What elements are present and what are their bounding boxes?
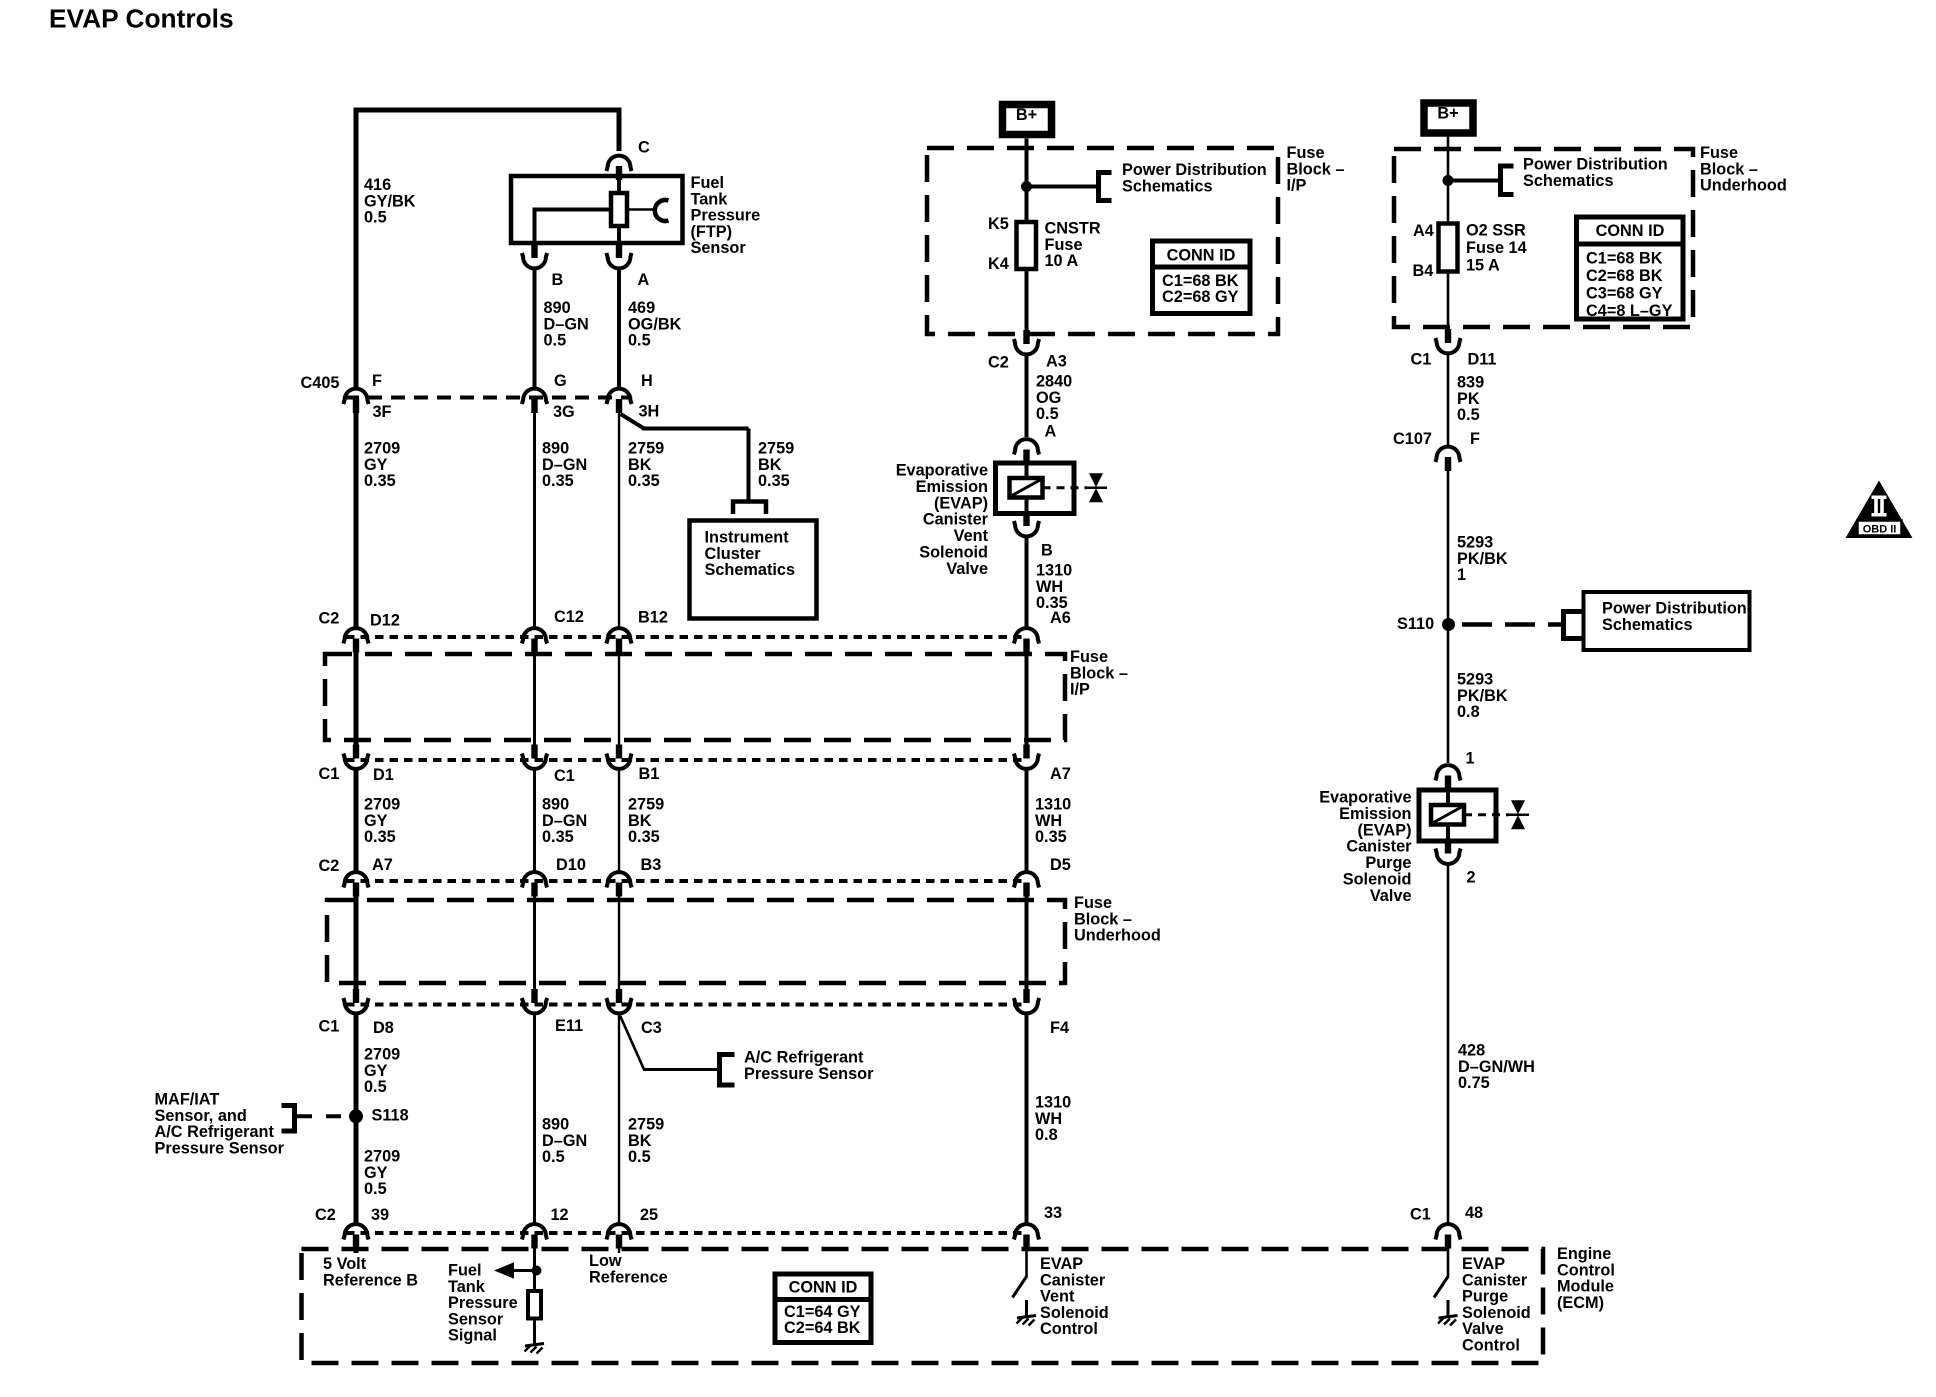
svg-text:B: B [552, 271, 564, 289]
svg-text:C405: C405 [301, 374, 340, 392]
label 1310 WH 0.8 [1035, 1094, 1071, 1145]
svg-text:C2: C2 [319, 610, 340, 628]
pin label D5 [1050, 856, 1071, 874]
svg-text:Power Distribution: Power Distribution [1602, 600, 1747, 618]
wire junction to O2 SSR fuse [1447, 181, 1450, 226]
svg-text:Schematics: Schematics [1523, 172, 1614, 190]
svg-text:0.75: 0.75 [1458, 1074, 1490, 1092]
svg-text:0.35: 0.35 [542, 472, 574, 490]
connector ECM pin 48 [1435, 1224, 1460, 1248]
svg-text:0.5: 0.5 [628, 332, 651, 350]
connector C1 pin D8 [343, 989, 368, 1013]
svg-text:CONN ID: CONN ID [1596, 222, 1665, 240]
connector pin A7 (col4) [1014, 745, 1039, 769]
label Fuse Block - I/P (left box) [1070, 648, 1128, 699]
svg-text:D12: D12 [370, 612, 400, 630]
label 839 PK 0.5 [1457, 374, 1484, 425]
label 2759 BK 0.5 (lower) [628, 1116, 664, 1167]
label C1 (row D8) [319, 1018, 340, 1036]
svg-text:EVAP: EVAP [1040, 1255, 1083, 1273]
svg-text:C3: C3 [641, 1019, 662, 1037]
svg-text:BK: BK [628, 456, 652, 474]
connector row C1/D8 dotted line [346, 1003, 1027, 1007]
svg-text:D11: D11 [1468, 351, 1497, 369]
svg-text:C: C [638, 139, 650, 157]
wire ECM pin 12 to internal resistor [533, 1247, 536, 1292]
svg-text:CONN ID: CONN ID [1167, 247, 1236, 265]
svg-text:B1: B1 [639, 765, 660, 783]
svg-text:H: H [641, 372, 653, 390]
svg-text:Solenoid: Solenoid [919, 544, 988, 562]
svg-text:C12: C12 [554, 608, 584, 626]
wire top loop (416 GY/BK from FTP sensor pin C) [354, 108, 622, 388]
svg-text:Vent: Vent [954, 527, 989, 545]
svg-text:15 A: 15 A [1466, 257, 1500, 275]
label Evaporative Emission (EVAP) Canister Purge Solenoid Valve [1319, 789, 1412, 905]
svg-text:Canister: Canister [1346, 838, 1412, 856]
splice S110 [1442, 618, 1455, 631]
label 5 Volt Reference B [323, 1255, 418, 1289]
wire stub from FTP box to pin B [533, 243, 537, 245]
svg-text:C2=68 BK: C2=68 BK [1586, 267, 1663, 285]
wire 2759 BK 0.35 (B1 to B3) [618, 770, 620, 871]
svg-text:CONN ID: CONN ID [789, 1279, 858, 1297]
power distribution schematics box (S110) [1584, 592, 1750, 650]
svg-text:Control: Control [1040, 1320, 1098, 1338]
connector pin D10 [522, 872, 547, 896]
svg-text:33: 33 [1044, 1204, 1062, 1222]
engine control module (ECM) dashed box [302, 1249, 1544, 1363]
label Fuel Tank Pressure (FTP) Sensor [691, 174, 761, 257]
splice S118 [349, 1109, 363, 1123]
label Power Distribution Schematics (middle) [1122, 161, 1267, 195]
svg-text:2759: 2759 [628, 440, 664, 458]
wire 890 D-GN 0.35 (C1 to D10) [533, 770, 536, 871]
dashed link MAF/IAT bracket to S118 [297, 1114, 350, 1118]
svg-text:BK: BK [758, 456, 782, 474]
svg-text:Fuse: Fuse [1700, 144, 1738, 162]
svg-text:S110: S110 [1397, 615, 1434, 633]
label C1 (ECM pin 48) [1410, 1206, 1431, 1224]
label S110 [1397, 615, 1434, 633]
wire 428 D-GN/WH 0.75 (pin 2 to ECM pin 48) [1447, 865, 1450, 1223]
pin label F (C107) [1470, 430, 1480, 448]
connector C405 pin F [343, 389, 368, 413]
svg-text:2759: 2759 [628, 1116, 664, 1134]
svg-text:Valve: Valve [946, 560, 988, 578]
connector pin C12 [522, 628, 547, 652]
svg-text:K5: K5 [988, 215, 1009, 233]
svg-text:Tank: Tank [448, 1278, 486, 1296]
pin label F4 [1050, 1019, 1069, 1037]
pin label D12 [370, 612, 400, 630]
svg-text:MAF/IAT: MAF/IAT [155, 1091, 220, 1109]
fuse CNSTR 10A element [1017, 222, 1037, 269]
wire 2709 GY 0.35 (3F to D12) [354, 411, 359, 628]
svg-text:OG: OG [1036, 389, 1061, 407]
svg-text:890: 890 [542, 440, 569, 458]
label C107 [1393, 430, 1432, 448]
pin label A7 (col4) [1050, 765, 1071, 783]
wire 2709 GY 0.5 (D8 to S118) [354, 1015, 359, 1117]
FTP sensor wiper wire [627, 208, 656, 210]
label EVAP Canister Purge Solenoid Valve Control [1462, 1255, 1531, 1355]
svg-text:A4: A4 [1413, 222, 1434, 240]
svg-text:Purge: Purge [1462, 1288, 1508, 1306]
svg-text:E11: E11 [555, 1017, 583, 1035]
wire 890 D-GN 0.5 (E11 to pin 12) [533, 1015, 536, 1224]
svg-text:Emission: Emission [916, 478, 988, 496]
svg-text:O2 SSR: O2 SSR [1466, 222, 1526, 240]
svg-text:0.35: 0.35 [542, 828, 574, 846]
svg-text:BK: BK [628, 1132, 652, 1150]
power distribution off-page bracket (middle) [1099, 170, 1112, 203]
svg-text:D1: D1 [373, 766, 394, 784]
connector ECM pin 39 [343, 1224, 368, 1248]
svg-text:Signal: Signal [448, 1327, 497, 1345]
label 1310 WH 0.35 (col4 mid) [1035, 796, 1071, 847]
wire B+ into fuse block I/P [1025, 139, 1029, 189]
label C2 (ECM row) [315, 1206, 336, 1224]
svg-text:Low: Low [589, 1252, 622, 1270]
svg-text:Solenoid: Solenoid [1343, 871, 1412, 889]
wire O2 SSR fuse to connector C1/D11 [1447, 272, 1450, 330]
wire 5293 PK/BK 1 (C107 to S110) [1447, 470, 1450, 624]
wire 1310 WH 0.35 (A7 to D5) [1025, 770, 1029, 871]
svg-text:890: 890 [542, 1116, 569, 1134]
svg-text:C1: C1 [554, 767, 575, 785]
label 2709 GY 0.5 (lower) [364, 1148, 400, 1199]
svg-text:Block –: Block – [1287, 160, 1345, 178]
svg-text:1310: 1310 [1035, 796, 1071, 814]
svg-text:Reference: Reference [589, 1268, 668, 1286]
label Fuse Block - Underhood (top) [1700, 144, 1787, 195]
connector pin E11 [522, 989, 547, 1013]
FTP sensor internal wire below element [617, 226, 621, 243]
svg-text:890: 890 [542, 796, 569, 814]
pin label A6 [1050, 609, 1071, 627]
wire ECM pin 25 stub [618, 1247, 620, 1253]
svg-text:K4: K4 [988, 255, 1009, 273]
wire 2709 GY 0.35 (D1 to A7) [354, 770, 359, 871]
wire col2 through underhood block [533, 896, 536, 990]
svg-text:Fuel: Fuel [448, 1262, 481, 1280]
svg-text:3G: 3G [553, 403, 575, 421]
FTP sensor internal wire to resistive element [617, 178, 621, 195]
label Fuse Block - Underhood (left box) [1074, 894, 1161, 945]
svg-text:0.35: 0.35 [1035, 828, 1067, 846]
svg-text:0.8: 0.8 [1035, 1126, 1058, 1144]
label 5293 PK/BK 0.8 [1457, 671, 1508, 722]
svg-text:2840: 2840 [1036, 373, 1072, 391]
ECM purge solenoid driver switch [1434, 1247, 1448, 1298]
svg-text:0.35: 0.35 [758, 472, 790, 490]
svg-text:EVAP: EVAP [1462, 1255, 1505, 1273]
label 1310 WH 0.35 (upper col4) [1036, 562, 1072, 613]
connector pin A of FTP sensor [606, 243, 631, 268]
EVAP canister purge solenoid valve [1419, 790, 1529, 841]
connector pin F4 [1014, 989, 1039, 1013]
power symbol B+ (middle) [1003, 105, 1052, 135]
pin label B (vent valve) [1041, 542, 1053, 560]
label K5 [988, 215, 1009, 233]
svg-text:CNSTR: CNSTR [1045, 220, 1101, 238]
svg-text:(ECM): (ECM) [1557, 1294, 1604, 1312]
pin label D10 [556, 856, 586, 874]
svg-text:428: 428 [1458, 1042, 1485, 1060]
wire junction to power distribution bracket (right) [1448, 179, 1499, 183]
pin label C12 [554, 608, 584, 626]
power symbol B+ (right) [1424, 103, 1473, 133]
svg-text:Fuse: Fuse [1045, 236, 1083, 254]
svg-text:WH: WH [1035, 812, 1062, 830]
label 416 GY/BK 0.5 [364, 176, 416, 227]
power distribution off-page bracket (right) [1501, 164, 1514, 198]
OBD II marker triangle [1846, 481, 1913, 539]
svg-text:Block –: Block – [1700, 160, 1758, 178]
svg-text:D–GN: D–GN [542, 812, 587, 830]
pin label C1 (col2) [554, 767, 575, 785]
wire 890 D-GN 0.35 (3G to C12) [533, 411, 536, 628]
svg-text:Underhood: Underhood [1074, 927, 1161, 945]
svg-text:OBD II: OBD II [1863, 524, 1897, 536]
svg-text:0.5: 0.5 [544, 332, 567, 350]
svg-text:Instrument: Instrument [705, 529, 790, 547]
pin label A7 (col1) [372, 856, 393, 874]
label EVAP Canister Vent Solenoid Control [1040, 1255, 1109, 1338]
svg-text:EVAP Controls: EVAP Controls [49, 4, 234, 34]
wire 2840 OG 0.5 (A3 to vent valve pin A) [1025, 356, 1029, 438]
wire junction to CNSTR fuse [1025, 187, 1029, 225]
wire 2759 BK 0.5 (C3 to pin 25) [618, 1015, 620, 1224]
pin label 3F [373, 403, 392, 421]
fuse block - underhood dashed box [327, 900, 1065, 983]
svg-text:B: B [1041, 542, 1053, 560]
wire 839 PK 0.5 (D11 to C107 F) [1447, 355, 1450, 446]
CONN ID table (fuse block I/P) [1153, 241, 1251, 314]
svg-text:10 A: 10 A [1045, 252, 1079, 270]
label C1 (row D1) [319, 765, 340, 783]
svg-text:C2=68 GY: C2=68 GY [1162, 288, 1239, 306]
svg-text:Control: Control [1462, 1337, 1520, 1355]
svg-text:Vent: Vent [1040, 1288, 1075, 1306]
svg-text:0.35: 0.35 [1036, 594, 1068, 612]
svg-text:0.5: 0.5 [1036, 405, 1059, 423]
svg-text:1: 1 [1457, 566, 1466, 584]
pin label B12 [638, 609, 668, 627]
svg-text:D5: D5 [1050, 856, 1071, 874]
pin label 12 [551, 1206, 569, 1224]
wire stub C into FTP box [617, 176, 622, 179]
svg-text:Reference B: Reference B [323, 1271, 418, 1289]
svg-text:2709: 2709 [364, 440, 400, 458]
svg-text:Solenoid: Solenoid [1462, 1304, 1531, 1322]
svg-text:1: 1 [1466, 750, 1475, 768]
connector C405 pin H [606, 389, 631, 413]
connector C2/A3 (middle) [1014, 330, 1039, 354]
svg-text:GY/BK: GY/BK [364, 192, 416, 210]
label 2759 BK 0.35 (second) [628, 796, 664, 847]
label 890 D-GN 0.5 [544, 299, 589, 350]
pin label A3 [1046, 353, 1067, 371]
label O2 SSR Fuse 14 15 A [1466, 222, 1527, 275]
label 2709 GY 0.35 [364, 440, 400, 491]
svg-text:F4: F4 [1050, 1019, 1069, 1037]
svg-text:0.5: 0.5 [364, 1180, 387, 1198]
svg-text:(EVAP): (EVAP) [934, 494, 988, 512]
power distribution off-page bracket (S110) [1564, 609, 1584, 641]
wire 2759 BK 0.35 branch to instrument cluster [621, 414, 749, 501]
label CNSTR Fuse 10 A [1045, 220, 1101, 271]
connector row C2/D12 dotted line [346, 635, 1027, 639]
svg-text:2759: 2759 [758, 440, 794, 458]
svg-text:C2=64 BK: C2=64 BK [784, 1319, 861, 1337]
svg-text:Pressure Sensor: Pressure Sensor [744, 1065, 874, 1083]
pin label F [372, 372, 382, 390]
svg-text:0.8: 0.8 [1457, 703, 1480, 721]
connector pin D5 [1014, 872, 1039, 896]
FTP sensor wiper crescent symbol [655, 200, 669, 221]
label Power Distribution Schematics (right) [1523, 156, 1668, 190]
label 428 D-GN/WH 0.75 [1458, 1042, 1535, 1093]
svg-text:0.5: 0.5 [364, 1078, 387, 1096]
label 890 D-GN 0.35 [542, 440, 587, 491]
junction node in fuse block underhood [1443, 175, 1454, 186]
label 469 OG/BK 0.5 [628, 299, 682, 350]
connector pin 2 below purge valve [1435, 840, 1460, 864]
pin label E11 [555, 1017, 583, 1035]
pin label C [638, 139, 650, 157]
svg-text:Pressure Sensor: Pressure Sensor [155, 1139, 285, 1157]
svg-text:Control: Control [1557, 1261, 1615, 1279]
svg-text:0.5: 0.5 [364, 209, 387, 227]
connector pin C at FTP sensor [606, 156, 631, 180]
svg-text:Canister: Canister [1040, 1271, 1106, 1289]
svg-text:Sensor: Sensor [448, 1310, 504, 1328]
instrument cluster connector symbol [733, 502, 766, 515]
wire B+ into fuse block underhood [1447, 137, 1450, 182]
svg-text:5293: 5293 [1457, 671, 1493, 689]
CONN ID table (fuse block underhood) [1577, 217, 1684, 320]
pin label 25 [640, 1206, 658, 1224]
svg-text:Block –: Block – [1070, 664, 1128, 682]
connector ECM pin 33 [1014, 1224, 1039, 1248]
svg-text:D–GN/WH: D–GN/WH [1458, 1058, 1535, 1076]
svg-text:B+: B+ [1016, 106, 1037, 124]
wire 890 D-GN 0.5 (pin B to C405 G) [533, 270, 537, 388]
ECM internal pull-up resistor [528, 1291, 541, 1319]
svg-text:I/P: I/P [1287, 177, 1307, 195]
label 2709 GY 0.5 (upper) [364, 1046, 400, 1097]
svg-text:F: F [1470, 430, 1480, 448]
svg-text:Sensor: Sensor [691, 239, 747, 257]
label 2709 GY 0.35 (second) [364, 796, 400, 847]
A/C refrigerant pressure sensor bracket [720, 1052, 735, 1088]
svg-text:0.35: 0.35 [628, 828, 660, 846]
pin label D8 [373, 1019, 394, 1037]
svg-text:B12: B12 [638, 609, 668, 627]
label C405 [301, 374, 340, 392]
fuse block - I/P dashed box (top middle) [927, 148, 1278, 334]
svg-text:416: 416 [364, 176, 391, 194]
svg-text:2709: 2709 [364, 1046, 400, 1064]
svg-text:469: 469 [628, 299, 655, 317]
label Engine Control Module (ECM) [1557, 1245, 1615, 1312]
label 2759 BK 0.35 (branch) [758, 440, 794, 491]
fuse block - underhood dashed box (top right) [1394, 149, 1693, 327]
svg-text:Canister: Canister [1462, 1271, 1528, 1289]
svg-text:Canister: Canister [923, 511, 989, 529]
fuse O2 SSR 15A element [1439, 224, 1458, 272]
svg-text:PK/BK: PK/BK [1457, 550, 1508, 568]
svg-text:Schematics: Schematics [1122, 177, 1213, 195]
svg-text:3H: 3H [639, 403, 660, 421]
pin label C3 [641, 1019, 662, 1037]
connector C107 pin F [1435, 447, 1460, 471]
svg-text:G: G [554, 372, 567, 390]
pin label 1 (purge valve) [1466, 750, 1475, 768]
connector pin B1 [606, 745, 631, 769]
svg-text:Cluster: Cluster [705, 545, 762, 563]
pin label B [552, 271, 564, 289]
pin label A [638, 271, 650, 289]
pin label 39 [371, 1206, 389, 1224]
svg-text:5293: 5293 [1457, 534, 1493, 552]
svg-text:Fuse: Fuse [1070, 648, 1108, 666]
instrument cluster schematics box [690, 521, 817, 619]
wire col1 through underhood block [354, 896, 359, 990]
connector pin C3 [606, 989, 631, 1013]
svg-text:C2: C2 [315, 1206, 336, 1224]
pin label 3H [639, 403, 660, 421]
connector pin B of FTP sensor [522, 244, 547, 268]
connector C1/D11 [1435, 329, 1460, 353]
label C2 (row A7) [319, 857, 340, 875]
svg-text:25: 25 [640, 1206, 658, 1224]
svg-text:I/P: I/P [1070, 681, 1090, 699]
svg-text:Solenoid: Solenoid [1040, 1304, 1109, 1322]
svg-text:A/C Refrigerant: A/C Refrigerant [155, 1123, 275, 1141]
fuel tank pressure (FTP) sensor box [511, 176, 683, 243]
wire 2709 GY 0.5 (S118 to pin 39) [354, 1116, 359, 1223]
svg-text:WH: WH [1035, 1110, 1062, 1128]
svg-text:Power Distribution: Power Distribution [1523, 156, 1668, 174]
svg-text:1310: 1310 [1035, 1094, 1071, 1112]
svg-text:Schematics: Schematics [705, 561, 796, 579]
svg-text:0.5: 0.5 [628, 1148, 651, 1166]
svg-text:Fuse 14: Fuse 14 [1466, 239, 1527, 257]
label C1 (D11 connector) [1411, 351, 1432, 369]
svg-text:2759: 2759 [628, 796, 664, 814]
svg-text:C107: C107 [1393, 430, 1432, 448]
EVAP canister vent solenoid valve [996, 463, 1108, 514]
svg-text:A3: A3 [1046, 353, 1067, 371]
pin label B3 [641, 856, 662, 874]
FTP sensor resistive element [611, 193, 627, 226]
svg-text:PK/BK: PK/BK [1457, 687, 1508, 705]
label 2840 OG 0.5 [1036, 373, 1072, 424]
wire branch to A/C refrigerant pressure sensor [620, 1016, 718, 1070]
svg-text:B3: B3 [641, 856, 662, 874]
pin label 48 [1465, 1204, 1483, 1222]
svg-text:GY: GY [364, 1062, 388, 1080]
svg-text:C4=8 L–GY: C4=8 L–GY [1586, 302, 1673, 320]
connector pin 1 at purge valve [1435, 765, 1460, 789]
svg-text:S118: S118 [372, 1107, 409, 1125]
junction node in fuse block I/P [1021, 181, 1032, 192]
label 890 D-GN 0.5 (lower) [542, 1116, 587, 1167]
svg-text:Tank: Tank [691, 190, 729, 208]
